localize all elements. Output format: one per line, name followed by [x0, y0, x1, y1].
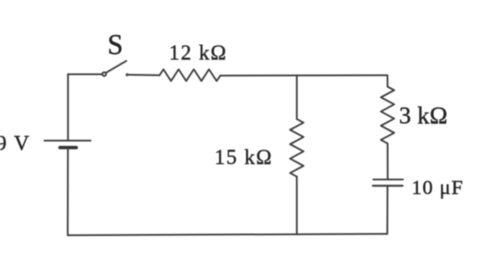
resistor 15 kOhm zigzag — [290, 119, 303, 177]
switch S blade — [106, 61, 127, 73]
wire left vertical upper — [67, 74, 69, 140]
capacitor 10 uF top plate — [373, 179, 403, 181]
wire switch to resistor — [129, 74, 160, 76]
svg-text:15 kΩ: 15 kΩ — [215, 145, 273, 169]
wire left vertical lower — [67, 148, 69, 235]
wire resistor to capacitor — [387, 144, 389, 180]
svg-text:9 V: 9 V — [0, 131, 30, 155]
svg-text:10 μF: 10 μF — [412, 177, 464, 199]
svg-text:12 kΩ: 12 kΩ — [169, 41, 227, 65]
wire right vertical upper — [386, 75, 388, 87]
svg-text:3 kΩ: 3 kΩ — [399, 103, 448, 129]
wire capacitor to bottom — [386, 187, 388, 234]
resistor 12 kOhm zigzag — [160, 69, 221, 81]
capacitor 10 uF bottom plate — [373, 185, 403, 187]
battery 9 V short plate — [60, 146, 76, 149]
wire resistor to right corner — [220, 74, 387, 76]
svg-text:S: S — [108, 30, 124, 61]
wire bottom horizontal — [68, 234, 388, 235]
wire middle vertical upper — [296, 75, 298, 119]
battery 9 V long plate — [44, 140, 90, 142]
wire top-left horizontal — [68, 73, 102, 75]
switch S left terminal — [102, 72, 106, 76]
resistor 3 kOhm zigzag — [381, 87, 394, 144]
switch S right terminal — [126, 73, 129, 76]
wire middle vertical lower — [296, 177, 298, 235]
